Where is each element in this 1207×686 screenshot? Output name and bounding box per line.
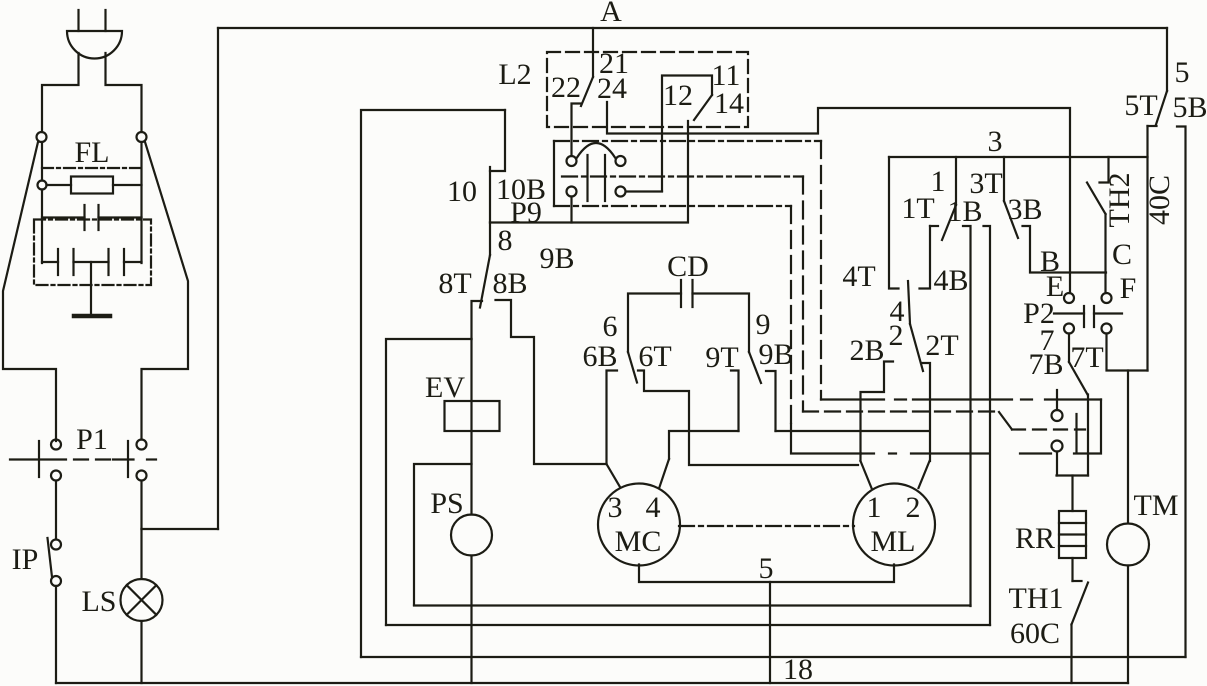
svg-text:5: 5 [1175, 56, 1190, 89]
wire left drop 2 [41, 190, 43, 264]
svg-text:7T: 7T [1070, 341, 1103, 374]
node small circle [38, 181, 47, 190]
contact 2T hook and wire [922, 363, 931, 461]
svg-text:10: 10 [447, 175, 477, 208]
thermal TH2 hook [1100, 157, 1109, 183]
wire PS branch [414, 464, 472, 605]
wire bus 3 [889, 156, 1148, 158]
svg-text:4B: 4B [933, 264, 968, 297]
contact 4 blade [908, 281, 910, 324]
svg-text:5B: 5B [1172, 91, 1207, 124]
contact 3T hook and wire down [984, 226, 991, 625]
svg-text:6B: 6B [582, 340, 617, 373]
wire cap mid segs [42, 261, 142, 263]
wire TH1 to bottom bus [1070, 625, 1072, 684]
wire TH2 to F [1104, 214, 1106, 293]
contact 6T hook and wire to ML [638, 371, 858, 466]
svg-text:1T: 1T [901, 192, 934, 225]
svg-text:F: F [1120, 272, 1137, 305]
svg-text:6T: 6T [638, 340, 671, 373]
wire CD left [628, 294, 681, 353]
svg-text:12: 12 [663, 79, 693, 112]
contact 9T hook and wire [731, 371, 739, 432]
wire CD right [693, 294, 750, 353]
wire TM to bottom bus [1127, 566, 1129, 684]
capacitor left pair plates [58, 249, 74, 275]
svg-text:2B: 2B [849, 334, 884, 367]
plug prong right [104, 10, 106, 31]
svg-text:1: 1 [867, 491, 882, 524]
wire LS to bottom bus [140, 621, 142, 683]
svg-text:7B: 7B [1028, 348, 1063, 381]
wire A drop [592, 28, 594, 77]
svg-text:3: 3 [988, 125, 1003, 158]
svg-text:ML: ML [871, 525, 916, 558]
filter dashed enclosure [34, 220, 151, 286]
wire left drop [41, 142, 43, 181]
wire 4T from bus 3 [889, 157, 899, 289]
contact 24 stub and wire to B [607, 102, 1070, 293]
contact 2B hook and wire [861, 362, 894, 462]
pressure switch P9 bottom dash-dot line [554, 205, 791, 207]
wire 7 blade down [1087, 395, 1089, 476]
pushbutton P2 actuator [1054, 306, 1122, 327]
wire cap top right [99, 216, 142, 218]
wire ground drop [90, 262, 92, 314]
svg-text:IP: IP [12, 543, 39, 576]
pressure switch P9 top dash-dot line [554, 140, 821, 142]
wire inner frame left [386, 339, 472, 625]
motor ML [853, 484, 935, 566]
contact P2 top-right F [1102, 293, 1112, 303]
contact 22 hook [572, 104, 582, 157]
switch 7 common [1068, 334, 1070, 363]
wire 10 jog [490, 110, 505, 171]
capacitor CD [681, 280, 693, 307]
wire 8T through EV to PS [470, 339, 472, 515]
svg-text:22: 22 [551, 71, 581, 104]
contact 5T hook lip [1148, 125, 1157, 127]
wire dashed vertical from P9 bottom [790, 206, 792, 430]
wire cap top left [42, 216, 85, 218]
wire dashed actuator line upper [821, 398, 1101, 400]
ground [74, 314, 110, 319]
svg-text:TH1: TH1 [1009, 582, 1064, 615]
svg-text:MC: MC [615, 525, 662, 558]
wire actuator corner [1074, 400, 1101, 454]
svg-text:LS: LS [81, 585, 116, 618]
pressure switch P9 box left edge [553, 141, 555, 206]
wire line 18 [361, 656, 1186, 658]
wire 5 drop to bus [769, 582, 771, 683]
wire RR to TH1 [1071, 558, 1073, 581]
contact 14 stub to node 8 line [490, 121, 688, 223]
wire long line PS to 1B [414, 604, 971, 606]
svg-text:9B: 9B [539, 242, 574, 275]
pushbutton P1 left pole contacts [51, 440, 61, 481]
pushbutton P1 right pole contacts [137, 440, 147, 481]
contact P2 top-left E [1064, 293, 1074, 303]
contact plunger bar [1075, 414, 1077, 452]
switch 3 common [1003, 157, 1005, 201]
wire outer left vertical [217, 28, 219, 529]
P9 actuator bars [588, 155, 606, 201]
wire top bus [218, 27, 1167, 29]
wire node to outer loop [142, 528, 219, 530]
switch IP blade [48, 538, 53, 577]
wire PS to bottom bus [470, 556, 472, 684]
wire 6B to MC terminal 3 [607, 464, 621, 487]
svg-text:9: 9 [756, 308, 771, 341]
switch 5 blade [1156, 91, 1167, 125]
resistor FL element [47, 177, 142, 194]
contact 5B hook and wire [1177, 127, 1186, 658]
svg-text:A: A [600, 0, 622, 28]
switch 9 blade [749, 352, 761, 383]
wire 9T to MC terminal 4 [669, 431, 739, 459]
wire 10B stub [489, 167, 491, 223]
svg-text:5: 5 [759, 552, 774, 585]
svg-text:C: C [1112, 238, 1132, 271]
P9 bridge arc [577, 143, 615, 158]
switch 1 common [955, 157, 957, 205]
svg-text:5T: 5T [1124, 89, 1157, 122]
svg-text:FL: FL [74, 136, 109, 169]
node terminal right [137, 132, 147, 142]
contact 9B hook and wire [766, 371, 776, 431]
wire plug to filter right [106, 53, 142, 132]
contact 12 frame wire [662, 76, 712, 192]
contact 3B hook and wire to B [1023, 226, 1107, 273]
wire 9B to 2T [776, 430, 930, 432]
wire bottom bus [56, 682, 1128, 684]
resistor RR [1059, 511, 1086, 558]
wire TM riser [1127, 371, 1129, 524]
svg-text:P9: P9 [510, 196, 542, 229]
contact P9 bottom-right [616, 187, 626, 197]
switch 1 blade [942, 205, 956, 240]
wire P9 bottom-left drop [570, 197, 572, 223]
solenoid EV box [445, 401, 500, 431]
wire P1 right bottom [140, 481, 142, 529]
wire solid elbow to ML [791, 424, 861, 454]
contact 6B hook and wire [607, 371, 618, 465]
switch 5 common [1166, 28, 1168, 91]
svg-text:60C: 60C [1010, 617, 1060, 650]
wire P1 to LS [140, 529, 142, 579]
svg-text:PS: PS [430, 487, 463, 520]
plug body [67, 31, 122, 58]
svg-text:8B: 8B [492, 267, 527, 300]
svg-text:6: 6 [603, 310, 618, 343]
coupling MC-ML dash-dot [679, 525, 854, 527]
wire IP to bottom bus [55, 586, 57, 683]
switch 8 blade [480, 255, 490, 308]
svg-text:3T: 3T [969, 167, 1002, 200]
switch 3 blade [1004, 201, 1018, 238]
wire dashed actuator line lower [861, 452, 1051, 454]
wire shield left diagonal [3, 142, 56, 441]
pushbutton P1 link dashes [74, 458, 110, 460]
wire shield right diagonal [142, 142, 189, 440]
contact P9 top-right [616, 156, 626, 166]
contact 8T hook [472, 301, 483, 339]
contact P2 bottom-left [1064, 324, 1074, 334]
wire dashed actuator line mid [803, 412, 1085, 430]
svg-text:8T: 8T [438, 267, 471, 300]
contact 4B hook [920, 226, 931, 289]
wire to RR [1071, 476, 1073, 512]
wire node 5 link [639, 565, 894, 583]
thermal TH2 blade [1087, 183, 1106, 215]
contact plunger lower circle [1052, 441, 1063, 476]
svg-text:4T: 4T [842, 260, 875, 293]
lamp LS [121, 579, 163, 621]
contact 8B hook and wire to MC [496, 300, 607, 464]
contact 22-24 blade [581, 77, 593, 106]
svg-text:P1: P1 [76, 423, 108, 456]
svg-text:9B: 9B [758, 338, 793, 371]
wire MC terminal 4 diagonal [660, 459, 670, 487]
wire dashed vertical from P9 mech [802, 177, 804, 412]
wire plug to filter left [42, 53, 79, 132]
contact 2 blade [910, 324, 923, 371]
filter FL dash-dot top line [42, 167, 142, 169]
wire frame top [361, 110, 505, 657]
thermal TH1 hook lip [1073, 580, 1082, 582]
motor MC [598, 484, 680, 566]
contact P2 bottom-right [1102, 324, 1112, 334]
svg-text:RR: RR [1015, 522, 1055, 555]
svg-text:8: 8 [498, 224, 513, 257]
contact 1T hook lip [930, 225, 938, 227]
svg-text:3: 3 [608, 491, 623, 524]
svg-text:L2: L2 [498, 58, 531, 91]
svg-text:CD: CD [667, 250, 709, 283]
wire 5T 40C vertical [1146, 126, 1148, 371]
thermal TH1 blade [1072, 583, 1089, 625]
wire plunger bottom link [1057, 474, 1089, 476]
pressure switch PS circle [451, 515, 492, 556]
capacitor right pair plates [109, 249, 125, 275]
svg-text:24: 24 [597, 72, 627, 105]
pushbutton P1 left actuator [10, 441, 66, 477]
switch IP contacts [51, 540, 61, 587]
wire 7T to TM riser [1107, 334, 1148, 371]
wire dashed vertical from P9 top [820, 141, 822, 400]
wire P1 left to IP [55, 481, 57, 539]
wire ML terminal 1 diagonal [861, 461, 872, 488]
svg-text:18: 18 [783, 653, 813, 686]
svg-text:4: 4 [646, 491, 661, 524]
motor TM [1107, 524, 1149, 566]
contact P9 bottom-left [567, 187, 577, 197]
wire ML terminal 2 diagonal [919, 461, 930, 488]
timer L2 dashed box [547, 52, 748, 127]
contact 12 blade [694, 95, 712, 120]
switch 6 blade [628, 352, 637, 383]
pressure switch P9 mech dash-dot line [562, 175, 803, 177]
switch 8 common [489, 223, 491, 256]
svg-text:14: 14 [714, 87, 744, 120]
svg-text:9T: 9T [705, 341, 738, 374]
contact plunger upper circle [1052, 390, 1063, 421]
wire right drop [140, 142, 142, 263]
switch 7 blade [1069, 362, 1088, 395]
wire long line frame to 3T [386, 624, 990, 626]
svg-text:TM: TM [1134, 489, 1179, 522]
capacitor C top plates [85, 205, 99, 230]
svg-text:EV: EV [425, 371, 465, 404]
svg-text:2T: 2T [925, 329, 958, 362]
svg-text:2: 2 [889, 319, 904, 352]
contact P9 top-left [567, 156, 577, 166]
plug P prong left [77, 10, 79, 31]
pushbutton P1 right actuator [113, 441, 156, 477]
contact 1B hook and wire to PS line [963, 226, 971, 606]
node terminal left [37, 132, 47, 142]
wire 12 to P9 contact [626, 190, 662, 192]
svg-text:2: 2 [906, 491, 921, 524]
